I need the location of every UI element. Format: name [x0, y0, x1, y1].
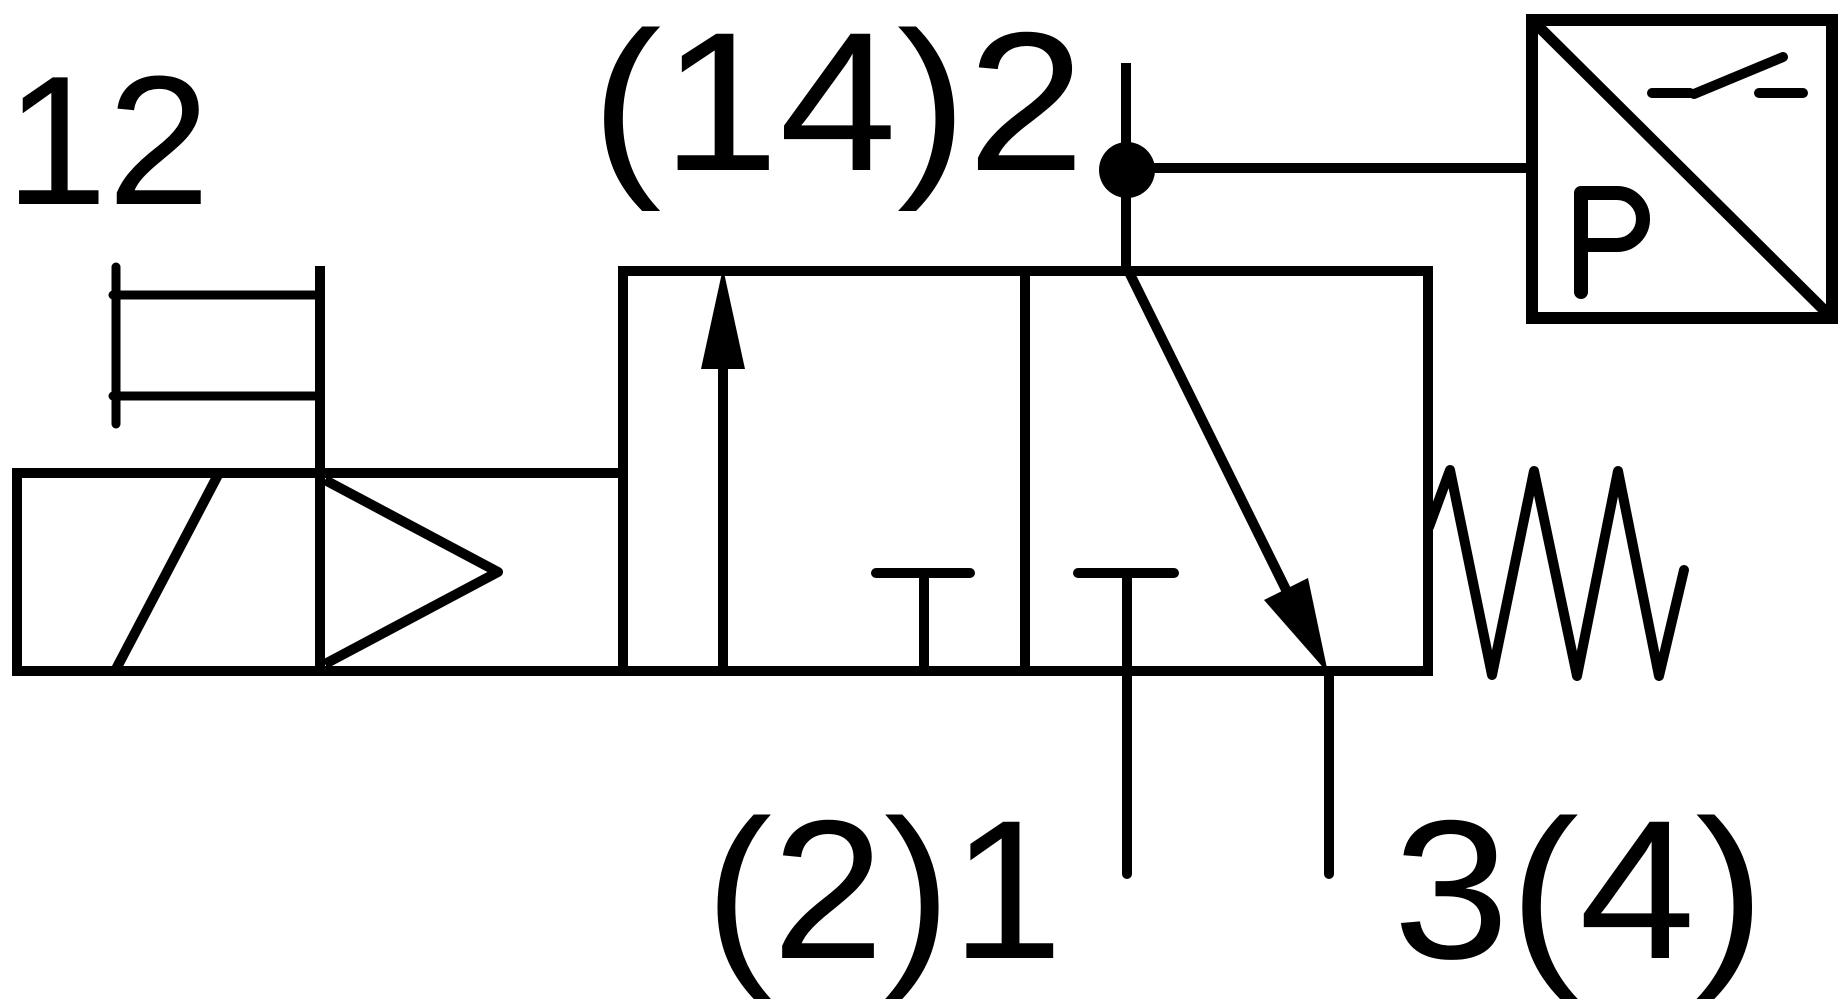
valve left edge — [618, 266, 628, 676]
port 1 stem wire — [1122, 573, 1132, 874]
solenoid coil box left edge — [12, 468, 22, 676]
valve top edge — [618, 266, 1433, 276]
svg-text:(2)1: (2)1 — [705, 779, 1063, 1000]
exhaust flow diagonal arrow head — [1264, 578, 1328, 673]
valve middle divider — [1020, 266, 1030, 676]
blocked port T (left square) bar — [876, 568, 970, 578]
pressure switch contact: moving arm — [1694, 57, 1783, 94]
pressure switch contact: right lead — [1759, 88, 1803, 98]
pressure switch box — [1532, 20, 1832, 318]
port 2 wire (vertical above valve) — [1121, 63, 1131, 271]
blocked port T (right square) bar — [1078, 568, 1174, 578]
solenoid coil diagonal stroke — [115, 473, 219, 671]
flow arrow shaft (left position, port 1 to 2) — [718, 360, 728, 671]
exhaust flow diagonal arrow shaft (right position) — [1127, 268, 1300, 618]
manual override bracket bottom rail — [113, 392, 320, 401]
letter P (pressure) — [1581, 193, 1643, 292]
port 3 stem wire — [1324, 671, 1334, 874]
manual override bracket top rail — [113, 291, 320, 300]
return spring — [1429, 470, 1684, 676]
svg-text:3(4): 3(4) — [1393, 779, 1765, 1000]
manual override bracket left post — [112, 267, 121, 424]
svg-text:12: 12 — [5, 37, 210, 243]
junction node dot — [1099, 142, 1155, 198]
wire from node to pressure switch — [1127, 163, 1532, 173]
pressure switch box diagonal — [1535, 23, 1829, 315]
svg-text:(14)2: (14)2 — [591, 0, 1085, 212]
flow arrow head — [701, 268, 745, 369]
solenoid coil divider / bracket right post — [315, 266, 325, 676]
pressure switch contact: left lead — [1652, 88, 1690, 98]
pilot amplifier triangle — [325, 480, 498, 664]
valve bottom rail (common) — [12, 666, 1433, 676]
valve right edge — [1423, 266, 1433, 676]
blocked port T (left square) stem — [919, 573, 929, 671]
solenoid coil box top edge — [12, 468, 623, 478]
